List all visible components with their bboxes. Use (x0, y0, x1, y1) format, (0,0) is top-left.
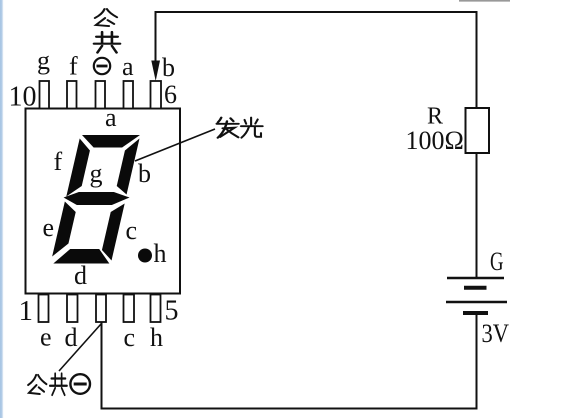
svg-text:b: b (162, 53, 175, 82)
top label 公 (95, 9, 117, 26)
svg-text:c: c (124, 323, 136, 352)
display body (26, 109, 181, 294)
bottom common minus symbol (70, 374, 90, 394)
svg-text:f: f (54, 147, 63, 176)
segment d (53, 249, 112, 264)
svg-text:a: a (105, 103, 117, 132)
svg-text:e: e (43, 213, 55, 242)
leader line to bottom common label (59, 324, 101, 371)
top pin 7 (a) (124, 81, 134, 109)
svg-text:a: a (122, 52, 134, 81)
bottom pin 2 (d) (67, 295, 78, 323)
svg-text:5: 5 (165, 296, 179, 327)
bottom pin 5 (h) (151, 295, 161, 323)
svg-text:d: d (74, 261, 87, 290)
bottom pin 1 (e) (39, 295, 49, 323)
segment b (115, 139, 140, 195)
top pin 8 (common) (96, 81, 106, 109)
top label 共 (94, 32, 120, 53)
svg-text:h: h (150, 323, 163, 352)
svg-text:G: G (490, 247, 504, 276)
segment c (100, 204, 125, 261)
bottom label 共 (50, 374, 67, 396)
leader line to 发光 (135, 129, 215, 161)
bottom pin 3 (common) (96, 295, 106, 323)
resistor R (466, 108, 490, 153)
svg-text:6: 6 (164, 80, 177, 109)
svg-text:h: h (154, 239, 167, 268)
seven segment digit (48, 135, 144, 264)
svg-text:g: g (37, 46, 50, 75)
segment f (66, 139, 92, 197)
top pin 10 (g) (40, 81, 50, 109)
left blue edge line (0, 0, 4, 418)
svg-text:g: g (90, 159, 103, 188)
top common minus symbol (94, 58, 110, 74)
label 光 (241, 118, 263, 138)
wire top horizontal (156, 12, 477, 108)
bottom label 公 (28, 375, 46, 394)
svg-text:b: b (138, 159, 151, 188)
svg-text:e: e (40, 323, 52, 352)
segment g (62, 192, 131, 205)
top pin 9 (f) (67, 81, 77, 109)
top gray artifact line (459, 0, 510, 2)
svg-text:1: 1 (19, 295, 34, 327)
battery G (446, 278, 507, 313)
svg-text:d: d (65, 323, 78, 352)
svg-text:f: f (69, 52, 78, 81)
svg-text:100Ω: 100Ω (406, 126, 464, 155)
top pin 6 (b) (151, 81, 162, 109)
label 发 (217, 118, 239, 138)
segment a (79, 135, 140, 148)
svg-text:10: 10 (9, 82, 37, 113)
arrowhead into pin b (151, 61, 160, 82)
svg-text:3V: 3V (482, 319, 510, 348)
svg-text:c: c (126, 216, 138, 245)
wire battery to bottom and to common pin (102, 313, 477, 409)
segment e (52, 202, 78, 257)
bottom pin 4 (c) (124, 295, 135, 323)
wire resistor to battery (476, 153, 478, 277)
decimal dot h (138, 249, 152, 263)
